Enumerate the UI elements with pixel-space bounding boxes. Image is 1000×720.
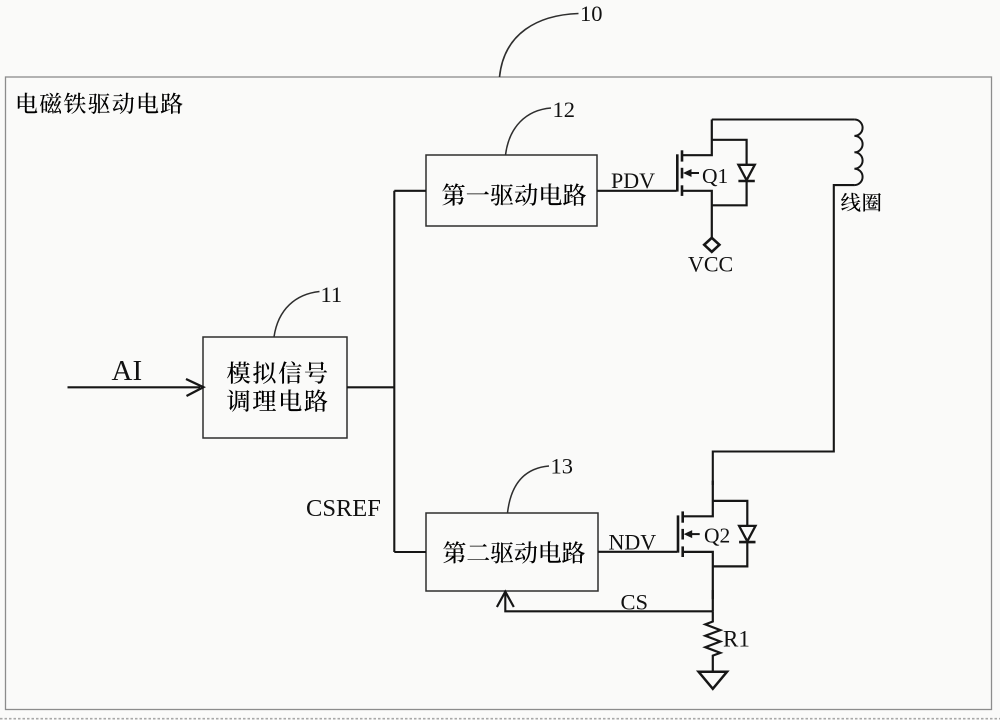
svg-text:VCC: VCC [688,252,733,277]
svg-text:NDV: NDV [609,530,657,555]
svg-text:11: 11 [321,282,343,307]
svg-text:10: 10 [580,1,603,26]
svg-text:12: 12 [553,97,576,122]
svg-text:13: 13 [551,454,574,479]
svg-text:R1: R1 [723,627,750,652]
svg-text:CS: CS [621,590,649,615]
svg-text:Q1: Q1 [702,164,728,188]
svg-text:CSREF: CSREF [306,495,381,522]
svg-text:AI: AI [112,355,143,387]
svg-text:Q2: Q2 [704,524,730,548]
svg-text:PDV: PDV [611,168,655,193]
